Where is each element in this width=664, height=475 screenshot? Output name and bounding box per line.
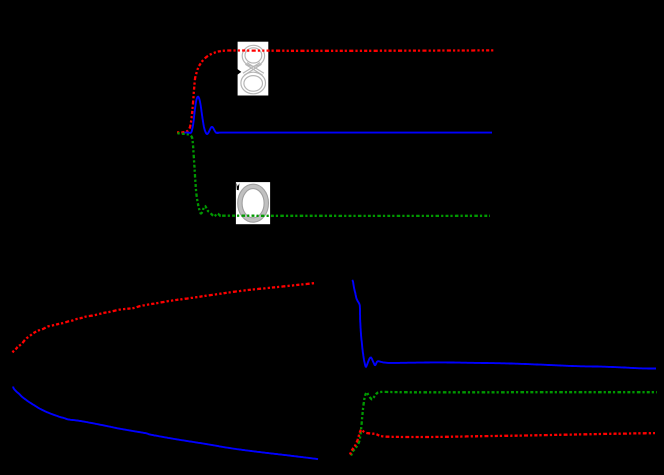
inset image box: digit 8 xyxy=(238,42,269,96)
digit 8 glyph (grey outline strokes) xyxy=(241,45,266,93)
top subplot: red dotted curve (prob. of target class) xyxy=(177,50,494,132)
top subplot: blue solid curve xyxy=(185,97,493,134)
bottom-left subplot: red dotted rising curve xyxy=(13,283,316,353)
bottom-right subplot: green dotted curve xyxy=(351,392,657,456)
inset image box: digit 0 xyxy=(236,182,270,224)
digit 0 glyph (grey ring) xyxy=(238,184,269,222)
bottom-right subplot: red dotted curve xyxy=(350,430,655,455)
annotation arrowhead pointing at digit 8 xyxy=(237,69,241,75)
bottom-left subplot: blue solid decaying curve xyxy=(13,387,318,460)
bottom-right subplot: blue solid curve xyxy=(352,280,656,369)
top subplot: green dotted curve (prob. of original class) xyxy=(178,133,491,216)
annotation arrowhead pointing at digit 0 xyxy=(236,183,239,190)
